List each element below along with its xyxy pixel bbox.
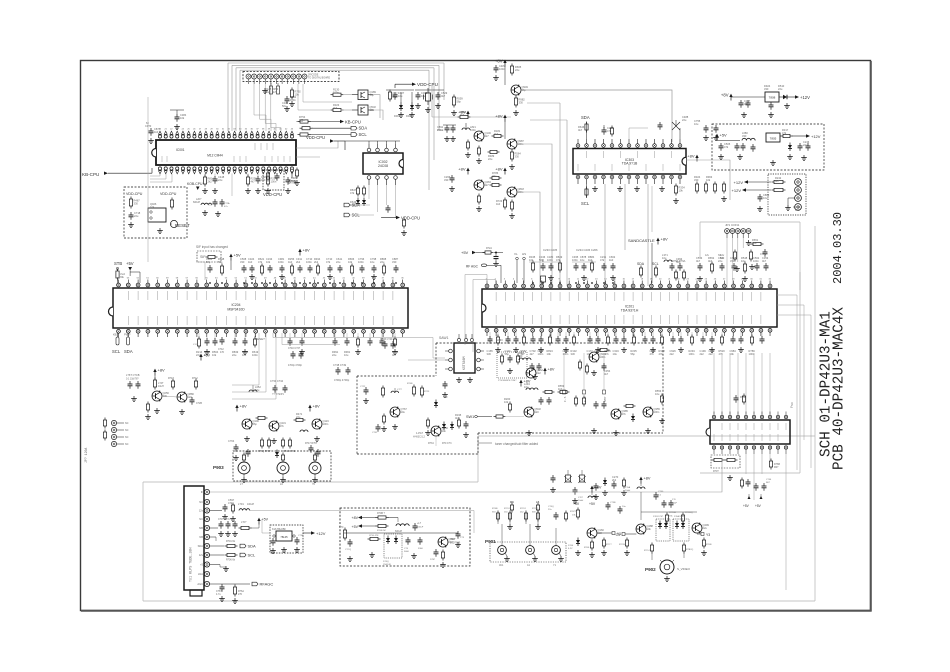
resistor [655, 266, 657, 269]
capacitor [137, 381, 139, 384]
svg-text:R?C4: R?C4 [644, 550, 650, 552]
capacitor [334, 338, 336, 341]
svg-text:+5V: +5V [573, 502, 580, 506]
ground [515, 110, 517, 113]
inductor [201, 203, 212, 205]
ground [243, 477, 245, 480]
resistor [478, 146, 480, 149]
svg-text:R?0: R?0 [339, 526, 344, 529]
dashed box below IC202 [711, 455, 740, 468]
svg-text:47k: 47k [556, 258, 561, 262]
power arrow +8V [590, 486, 593, 489]
svg-text:10k: 10k [180, 116, 185, 120]
transistor [152, 391, 162, 401]
resistor [331, 94, 334, 96]
wire rail above IC201 [529, 261, 560, 263]
svg-text:IC204: IC204 [231, 303, 240, 307]
power arrow +8V [308, 405, 311, 408]
capacitor [292, 351, 294, 354]
resistor [661, 335, 663, 338]
capacitor [395, 265, 397, 268]
wire tuner IF to section [435, 436, 437, 446]
resistor [537, 511, 539, 514]
capacitor [583, 263, 585, 266]
capacitor [299, 265, 301, 268]
svg-text:56p: 56p [206, 260, 211, 264]
svg-text:KIA78L05F: KIA78L05F [272, 527, 286, 531]
wire [431, 86, 433, 117]
ground [301, 349, 303, 352]
ground [583, 275, 585, 278]
svg-text:SAW1: SAW1 [439, 336, 449, 340]
ground [446, 136, 448, 139]
resistor [543, 391, 546, 393]
svg-text:7808: 7808 [769, 96, 776, 100]
capacitor [451, 175, 453, 178]
svg-text:10u: 10u [295, 93, 300, 97]
resistor [427, 418, 429, 421]
wires below JP1 [726, 238, 728, 258]
capacitor [747, 479, 749, 482]
capacitor [214, 199, 216, 202]
capacitor [548, 397, 550, 400]
resistor [488, 151, 491, 153]
ground [224, 514, 226, 517]
resistor [750, 250, 752, 253]
capacitor [235, 444, 237, 447]
capacitor [672, 336, 674, 339]
svg-text:C?3B: C?3B [298, 535, 304, 537]
resistor [781, 135, 784, 137]
svg-text:SCL: SCL [248, 553, 257, 558]
capacitor [361, 265, 363, 268]
svg-text:10u: 10u [694, 122, 699, 126]
svg-text:10k: 10k [504, 400, 509, 404]
resistor [661, 394, 663, 397]
capacitor [623, 336, 625, 339]
svg-text:22u: 22u [718, 259, 723, 263]
svg-text:+8V: +8V [458, 167, 466, 172]
wire [373, 95, 380, 118]
svg-text:+8V: +8V [548, 368, 555, 372]
svg-text:10k: 10k [647, 527, 652, 531]
capacitor [221, 337, 223, 340]
capacitor [509, 355, 511, 358]
svg-text:M12 CM44: M12 CM44 [207, 154, 223, 158]
svg-text:R?0?5: R?0?5 [570, 511, 577, 513]
svg-text:+8V: +8V [158, 368, 166, 373]
resistor [389, 90, 391, 93]
ground [159, 228, 161, 231]
capacitor [392, 341, 394, 344]
wire into 78L05 [262, 532, 270, 534]
resistor [104, 418, 106, 421]
capacitor [339, 265, 341, 268]
svg-text:330: 330 [694, 178, 699, 182]
wire [517, 144, 552, 286]
svg-text:C?0? +5?u?v: C?0? +5?u?v [218, 518, 233, 521]
resistor [705, 182, 707, 185]
inductor [526, 388, 538, 390]
capacitor [247, 449, 249, 452]
ground [715, 135, 717, 138]
capacitor [557, 336, 559, 339]
capacitor [603, 127, 605, 130]
svg-text:100n: 100n [753, 259, 759, 263]
capacitor [206, 338, 208, 341]
svg-text:R?CO: R?CO [504, 508, 510, 510]
resistor [537, 503, 539, 506]
components below IC001 [204, 174, 206, 178]
resistor [117, 269, 119, 272]
resistor [344, 528, 346, 531]
svg-text:NC: NC [199, 500, 203, 504]
ground [699, 276, 701, 279]
svg-text:SCL: SCL [652, 262, 659, 266]
svg-text:47k: 47k [350, 191, 355, 195]
svg-text:1k0: 1k0 [535, 410, 540, 414]
hanging resistors below connector [270, 83, 272, 86]
svg-text:L?0?: L?0? [241, 521, 247, 524]
svg-text:PCB 40-DP42U3-MAC4X: PCB 40-DP42U3-MAC4X [832, 307, 848, 470]
transistor Q003 digital switch [358, 105, 368, 115]
resistor [261, 438, 263, 441]
wire to IC201 pin1 [465, 275, 487, 346]
ground [711, 347, 713, 350]
resistor [291, 264, 293, 267]
svg-text:NC: NC [125, 422, 129, 425]
svg-text:10u: 10u [370, 260, 375, 264]
svg-text:10u: 10u [580, 258, 585, 262]
resistor [232, 503, 234, 506]
resistor [511, 150, 513, 153]
svg-text:1-PA?: 1-PA? [416, 431, 424, 435]
wire IC204 to audio bank [232, 333, 259, 385]
capacitor [407, 537, 409, 540]
resistor [515, 96, 517, 99]
svg-text:STB: STB [288, 180, 296, 185]
resistor [711, 262, 713, 265]
resistor [172, 379, 174, 382]
svg-text:R?F0B: R?F0B [669, 512, 676, 514]
pull-up network near VDD-CPU [386, 89, 414, 91]
svg-text:SDA: SDA [637, 262, 645, 266]
svg-text:SANDCASTLE: SANDCASTLE [628, 238, 655, 243]
resistor [383, 414, 385, 417]
capacitor [597, 336, 599, 339]
diode [676, 521, 678, 524]
capacitor [214, 176, 216, 179]
svg-text:R?4T: R?4T [168, 377, 174, 380]
right verticals [777, 295, 797, 470]
svg-text:47k: 47k [622, 412, 627, 416]
ground [287, 188, 289, 191]
svg-text:100n: 100n [299, 118, 305, 122]
capacitor [234, 521, 236, 524]
ground [528, 430, 530, 433]
svg-text:NC: NC [125, 443, 129, 446]
svg-text:1k0: 1k0 [248, 260, 253, 264]
svg-text:VDD-CPU: VDD-CPU [417, 82, 438, 87]
svg-text:0.1 15d/76?: 0.1 15d/76? [126, 378, 139, 381]
resistor [517, 354, 519, 357]
regulator section dashed box [712, 124, 824, 170]
resistor [204, 175, 206, 178]
svg-text:R?34: R?34 [428, 442, 434, 445]
capacitor [799, 143, 801, 146]
transistor [507, 187, 517, 197]
ground [457, 542, 459, 545]
svg-text:3300: 3300 [418, 548, 424, 550]
ground [234, 531, 236, 534]
ground [246, 436, 248, 439]
resistor [363, 186, 365, 189]
capacitor [603, 401, 605, 404]
svg-text:R?0B ?: R?0B ? [377, 512, 386, 515]
power arrow +8V [153, 369, 156, 372]
resistor [492, 135, 495, 137]
ground [427, 107, 429, 110]
svg-text:D001: D001 [394, 114, 401, 118]
svg-text:47k: 47k [228, 501, 233, 505]
ground [591, 552, 593, 555]
svg-text:22u: 22u [778, 87, 783, 91]
ground [371, 552, 373, 555]
ground [740, 347, 742, 350]
ground [291, 101, 293, 104]
wire [162, 396, 178, 397]
svg-text:R?06: R?06 [584, 547, 590, 549]
ground [316, 436, 318, 439]
ground [217, 211, 219, 214]
svg-text:330: 330 [519, 101, 524, 105]
svg-text:50v: 50v [282, 104, 287, 108]
ground [478, 158, 480, 161]
resistor [234, 585, 236, 588]
ground [743, 112, 745, 115]
svg-text:C?44: C?44 [766, 479, 772, 481]
capacitor [176, 114, 178, 117]
svg-text:47k: 47k [724, 145, 729, 149]
svg-text:R?CHQ: R?CHQ [685, 512, 693, 514]
diode pair with dashed box [656, 519, 670, 541]
resistor [413, 385, 415, 388]
svg-text:Y3: Y3 [706, 533, 710, 537]
svg-text:100n: 100n [654, 410, 660, 414]
capacitor [752, 144, 754, 147]
svg-text:47k: 47k [280, 424, 285, 428]
svg-text:L?2?: L?2? [397, 389, 403, 391]
svg-text:47k: 47k [782, 131, 787, 135]
svg-text:10k: 10k [348, 260, 353, 264]
capacitor [542, 263, 544, 266]
capacitor [269, 265, 271, 268]
svg-text:C234 C236 C206: C234 C236 C206 [576, 248, 598, 252]
resistor [598, 349, 601, 351]
svg-text:P?SOBSNPS-TOM?: P?SOBSNPS-TOM? [498, 380, 517, 382]
svg-text:L?6T C?CB: L?6T C?CB [126, 373, 140, 377]
transistor [611, 409, 621, 419]
svg-text:C?40 C?4?: C?40 C?4? [288, 347, 301, 350]
ground [235, 455, 237, 458]
svg-text:RFAGC: RFAGC [260, 582, 274, 587]
resistor [723, 182, 725, 185]
svg-text:22u: 22u [803, 143, 808, 147]
wires S-video [651, 553, 653, 560]
power +12V feeds [744, 180, 748, 183]
resistor [376, 525, 379, 527]
capacitor [457, 531, 459, 534]
resistor [221, 264, 223, 267]
ground [232, 516, 234, 519]
diode [395, 536, 397, 539]
svg-text:4k7: 4k7 [494, 132, 499, 136]
net label RFAGC [252, 582, 258, 586]
wire IC204 to SAW bus [273, 333, 445, 358]
ground [594, 186, 596, 189]
ground [283, 547, 285, 550]
transistor [474, 131, 484, 141]
capacitor [414, 523, 416, 526]
capacitor [679, 263, 681, 266]
capacitor [807, 143, 809, 146]
ground [729, 475, 731, 478]
svg-text:L?01: L?01 [238, 502, 244, 506]
ground [206, 349, 208, 352]
wires below IC002 [368, 185, 370, 199]
resistor [300, 127, 303, 129]
capacitor [702, 336, 704, 339]
capacitor [613, 481, 615, 484]
svg-text:+8V: +8V [595, 486, 602, 490]
svg-text:10u: 10u [655, 392, 660, 396]
capacitor [515, 336, 517, 339]
svg-text:VDD-CPU: VDD-CPU [306, 135, 325, 140]
svg-text:22u: 22u [296, 415, 301, 419]
svg-text:1k0: 1k0 [242, 353, 247, 357]
svg-text:C?2A: C?2A [224, 202, 230, 205]
resistor [744, 262, 746, 265]
capacitor [655, 492, 657, 495]
capacitor [659, 122, 661, 125]
net label SDA [344, 203, 350, 207]
connector JP-CODE digital board [243, 72, 339, 82]
svg-text:4k7: 4k7 [441, 94, 446, 98]
ground [383, 426, 385, 429]
ground [373, 274, 375, 277]
capacitor [289, 338, 291, 341]
resistor [267, 171, 269, 174]
svg-text:+5V: +5V [234, 253, 242, 258]
resistor [331, 109, 334, 111]
svg-text:+5V: +5V [755, 504, 762, 508]
svg-text:GND: GND [496, 338, 504, 342]
svg-text:330: 330 [261, 178, 266, 182]
capacitor [349, 539, 351, 542]
capacitor [507, 336, 509, 339]
ground [272, 548, 274, 551]
resistor [171, 198, 173, 201]
svg-text:R?60 R?9A: R?60 R?9A [672, 259, 686, 263]
svg-text:SDA: SDA [581, 115, 590, 120]
below IC204 components [198, 333, 200, 339]
capacitor [310, 445, 312, 448]
wire [517, 192, 540, 286]
capacitor [574, 487, 576, 490]
resistor [751, 335, 753, 338]
ground [511, 164, 513, 167]
svg-text:100n: 100n [271, 180, 277, 184]
transistor [431, 426, 441, 436]
resistor [490, 177, 493, 179]
inductor [300, 430, 308, 432]
net arrow KB-CPU [310, 121, 340, 123]
IC202 inner names [721, 423, 723, 430]
svg-text:+8V: +8V [495, 114, 503, 119]
svg-text:330: 330 [134, 202, 139, 206]
capacitor [495, 65, 497, 68]
svg-text:10k: 10k [150, 205, 155, 209]
svg-text:10k: 10k [547, 352, 552, 356]
ground [147, 414, 149, 417]
svg-text:2k2: 2k2 [670, 352, 675, 356]
capacitor [234, 338, 236, 341]
capacitor [607, 502, 609, 505]
capacitor [243, 265, 245, 268]
resistor [691, 335, 693, 338]
reset IC U0R [148, 208, 166, 222]
capacitor [720, 143, 722, 146]
ground [394, 424, 396, 427]
ground [560, 556, 562, 559]
svg-text:SCL: SCL [112, 349, 121, 354]
ground [365, 398, 367, 401]
svg-text:MSP3410D: MSP3410D [227, 307, 245, 311]
svg-text:2SD?66B: 2SD?66B [450, 542, 461, 545]
net arrow VDD-CPU right [381, 217, 396, 219]
resistor [458, 418, 460, 421]
resistor [247, 175, 249, 178]
resistor [256, 417, 259, 419]
capacitor [747, 100, 749, 103]
ground [234, 598, 236, 601]
wire bus below IC001 left pins [150, 174, 160, 176]
diode D?0? [779, 96, 783, 98]
ground [478, 206, 480, 209]
net tag V1 [597, 532, 612, 534]
resistor [282, 438, 284, 441]
top bus wires wrapping connector [228, 62, 444, 64]
svg-text:4k7: 4k7 [392, 353, 397, 357]
svg-text:C?2B: C?2B [196, 402, 202, 405]
svg-text:C?3B: C?3B [610, 502, 616, 504]
resistor [603, 538, 605, 541]
resistor [640, 266, 642, 269]
below IC201 component rows [489, 332, 491, 337]
svg-text:4k7: 4k7 [578, 128, 583, 132]
svg-text:C?04: C?04 [228, 439, 235, 443]
wire long vertical [559, 103, 561, 286]
inductor [249, 390, 257, 392]
ground [705, 135, 707, 138]
resistor [509, 402, 511, 405]
svg-text:6.2V: 6.2V [568, 548, 573, 550]
crystal sym [567, 470, 569, 475]
transistor [526, 368, 536, 378]
svg-text:C?33 C?34: C?33 C?34 [270, 379, 284, 383]
svg-text:10k: 10k [706, 178, 711, 182]
capacitor [129, 381, 131, 384]
